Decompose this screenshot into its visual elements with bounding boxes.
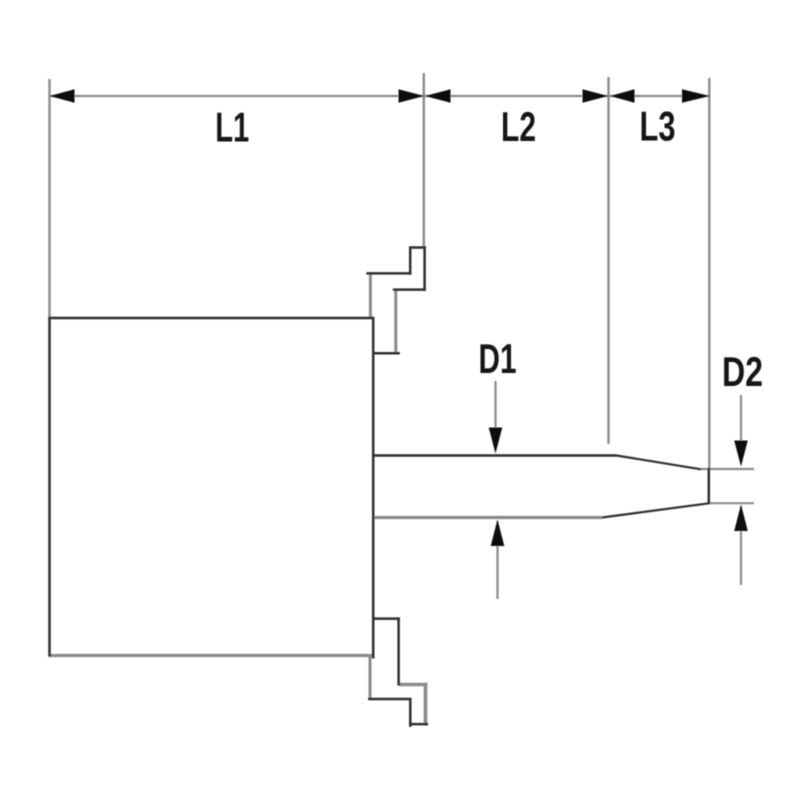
probe top edge — [372, 454, 617, 456]
arrow D1 down — [489, 428, 503, 454]
extension line at taper start (L2/L3 boundary) — [607, 77, 609, 444]
flange upper step inner vertical — [409, 248, 412, 275]
arrow L3 left — [610, 89, 635, 103]
probe taper bottom — [602, 503, 709, 517]
D1 dimension line upper — [494, 381, 496, 451]
D2 extension line top — [701, 468, 754, 470]
flange lower bottom cap — [409, 723, 428, 726]
flange lower top cap — [372, 617, 400, 620]
arrow L2 right — [583, 89, 609, 103]
svg-text:L1: L1 — [215, 103, 249, 150]
probe taper top — [617, 456, 702, 470]
D1 dimension line lower — [496, 521, 498, 599]
extension line left (L1 start) — [48, 79, 50, 317]
flange lower step vertical — [409, 698, 412, 727]
flange lower step horizontal — [368, 698, 412, 701]
D2 extension line bottom — [710, 502, 754, 504]
D2 dimension line lower — [740, 506, 742, 585]
flange upper top cap — [409, 246, 426, 249]
arrow L1 left — [50, 89, 75, 103]
body right edge — [372, 317, 375, 659]
arrow L3 right — [682, 89, 710, 103]
extension line at flange outer edge (L1/L2 boundary) — [423, 73, 425, 247]
flange middle upper vertical — [394, 289, 397, 354]
extension line at probe tip (L3 end) — [708, 78, 710, 468]
arrow L2 left — [425, 89, 451, 103]
body bottom edge — [49, 654, 375, 657]
svg-text:L2: L2 — [501, 103, 536, 150]
D2 dimension line upper — [740, 395, 742, 464]
flange upper bottom cap — [372, 352, 400, 355]
probe bottom edge — [372, 516, 602, 519]
arrow L1 right — [399, 89, 425, 103]
flange upper outer horizontal — [393, 288, 426, 291]
flange face upper vertical — [369, 273, 372, 319]
body top edge — [48, 317, 374, 320]
arrow D2 down — [734, 441, 748, 467]
arrow D2 up — [734, 505, 748, 532]
svg-text:D1: D1 — [479, 335, 517, 382]
arrow D1 up — [491, 520, 505, 547]
flange outer lower vertical — [424, 683, 428, 726]
flange upper outer vertical — [423, 246, 426, 290]
flange lower inner vertical — [397, 617, 400, 685]
flange lower horizontal step — [399, 683, 428, 687]
flange face lower vertical — [369, 655, 372, 699]
svg-text:L3: L3 — [640, 103, 676, 150]
body left edge — [48, 317, 51, 657]
probe tip face — [708, 468, 711, 504]
horizontal dimension line — [50, 95, 711, 97]
flange upper step inner horizontal — [366, 272, 411, 275]
svg-text:D2: D2 — [722, 348, 763, 395]
